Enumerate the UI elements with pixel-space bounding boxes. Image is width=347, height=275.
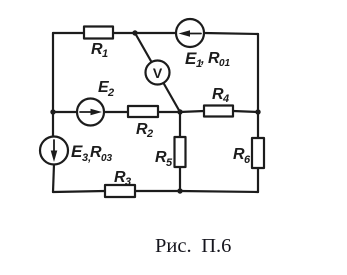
label R3 bbox=[114, 169, 131, 188]
wire top-left horizontal (node A to R1) bbox=[53, 32, 84, 34]
wire E3 to bottom-left corner bbox=[53, 164, 54, 192]
svg-text:4: 4 bbox=[222, 93, 229, 105]
voltmeter V bbox=[146, 61, 170, 85]
node B junction dot bbox=[132, 30, 137, 35]
label R1 bbox=[91, 41, 108, 60]
source E2 (circle with right arrow) bbox=[77, 99, 104, 126]
caption bbox=[155, 236, 231, 257]
svg-text:2: 2 bbox=[146, 128, 153, 140]
label E3, R03 bbox=[71, 142, 113, 164]
wire E2 to R2 bbox=[104, 111, 128, 113]
wire node D to R6 bbox=[257, 112, 259, 138]
svg-text:6: 6 bbox=[244, 154, 251, 166]
label E2 bbox=[98, 79, 114, 99]
resistor R6 bbox=[252, 138, 264, 168]
label R6 bbox=[233, 146, 251, 166]
svg-text:3: 3 bbox=[125, 176, 131, 188]
wire R3 to node G and bottom-right corner bbox=[135, 191, 258, 192]
wire R5 to node G bbox=[179, 167, 181, 191]
wire R4 to node D bbox=[233, 111, 258, 112]
source E1,R01 (circle with left arrow) bbox=[176, 19, 204, 47]
resistor R2 bbox=[128, 106, 158, 117]
label R5 bbox=[155, 149, 173, 169]
svg-text:2: 2 bbox=[107, 87, 114, 99]
wire node C to R4 bbox=[180, 111, 204, 112]
resistor R1 bbox=[84, 27, 113, 39]
label R4 bbox=[212, 86, 229, 105]
wire node E to E2 source bbox=[53, 111, 77, 113]
wire node C to R5 bbox=[179, 112, 181, 137]
wire E1 to top-right corner bbox=[204, 33, 258, 34]
label R2 bbox=[136, 121, 153, 140]
svg-text:01: 01 bbox=[219, 58, 231, 69]
resistor R5 bbox=[175, 137, 186, 167]
source E3,R03 (circle with down arrow) bbox=[40, 137, 68, 165]
node C junction dot bbox=[177, 109, 182, 114]
label E1, R01 bbox=[185, 49, 231, 70]
node G junction dot bbox=[177, 188, 182, 193]
wire bottom-left to R3 bbox=[53, 191, 105, 192]
svg-text:,: , bbox=[200, 51, 205, 66]
node E junction dot bbox=[50, 109, 55, 114]
resistor R4 bbox=[204, 106, 233, 117]
resistor R3 bbox=[105, 185, 135, 197]
wire right vertical (top corner to node D) bbox=[257, 34, 259, 112]
wire R2 to node C bbox=[158, 111, 180, 113]
wire node E to E3 source bbox=[52, 112, 54, 137]
wire node B to E1 source bbox=[135, 32, 176, 34]
wire diagonal node B to node C (through voltmeter) bbox=[135, 33, 180, 112]
svg-text:03: 03 bbox=[101, 153, 113, 164]
node D junction dot bbox=[255, 109, 260, 114]
wire left vertical (node A to node E) bbox=[52, 33, 54, 112]
svg-text:V: V bbox=[153, 65, 163, 81]
svg-text:5: 5 bbox=[166, 157, 173, 169]
wire R1 to node B bbox=[113, 32, 135, 34]
svg-text:1: 1 bbox=[102, 48, 108, 60]
wire R6 to bottom-right corner bbox=[257, 168, 259, 192]
